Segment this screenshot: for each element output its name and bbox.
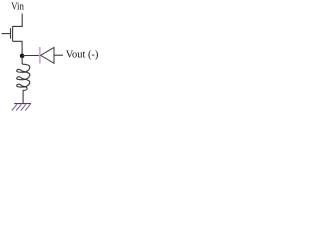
inductor L1 — [17, 64, 30, 90]
ground — [12, 104, 31, 111]
svg-text:Vout (-): Vout (-) — [66, 50, 99, 61]
wire gate lead — [2, 33, 11, 35]
node A junction dot — [20, 54, 25, 59]
wire Vin to transistor drain — [13, 14, 23, 27]
wire transistor source to node A — [13, 41, 23, 56]
wire node A to inductor — [21, 56, 23, 64]
svg-text:Vin: Vin — [11, 1, 24, 13]
wire inductor to ground — [22, 90, 24, 104]
diode D1 triangle — [41, 48, 54, 64]
wire node A to diode cathode — [22, 55, 39, 57]
transistor Q1 gate bar — [10, 28, 12, 39]
diode D1 cathode bar — [39, 47, 41, 64]
transistor Q1 channel bar — [12, 26, 14, 41]
wire diode anode to Vout — [54, 54, 63, 56]
